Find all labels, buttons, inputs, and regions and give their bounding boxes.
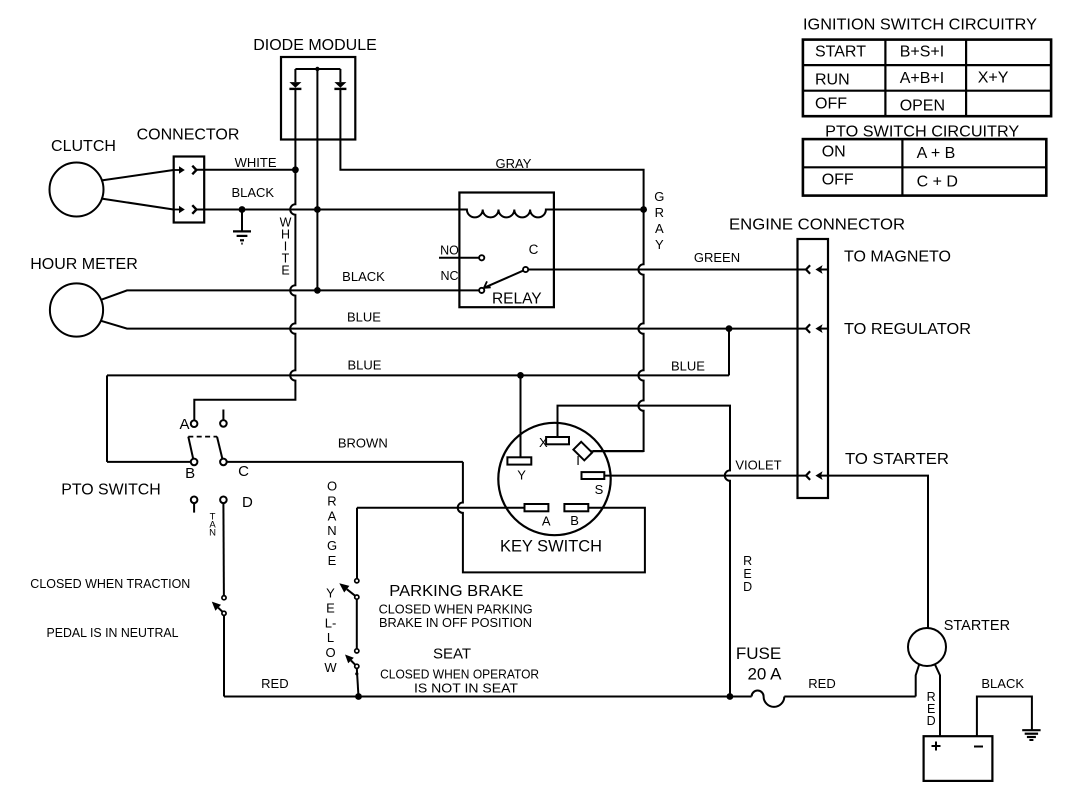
svg-text:G: G [654, 189, 664, 204]
svg-text:ENGINE CONNECTOR: ENGINE CONNECTOR [729, 217, 905, 234]
svg-text:PEDAL IS IN NEUTRAL: PEDAL IS IN NEUTRAL [47, 626, 179, 640]
svg-text:OFF: OFF [822, 171, 854, 188]
svg-text:OFF: OFF [815, 96, 847, 113]
svg-text:CLUTCH: CLUTCH [51, 138, 116, 155]
svg-text:Y: Y [655, 237, 664, 252]
svg-text:DIODE MODULE: DIODE MODULE [253, 37, 377, 54]
svg-text:BROWN: BROWN [338, 436, 388, 451]
svg-text:E: E [281, 263, 289, 277]
svg-text:PTO SWITCH: PTO SWITCH [61, 482, 161, 499]
svg-text:R: R [743, 554, 752, 568]
svg-text:G: G [327, 538, 337, 553]
svg-text:NO: NO [440, 243, 459, 257]
svg-text:PTO SWITCH CIRCUITRY: PTO SWITCH CIRCUITRY [825, 124, 1019, 141]
svg-text:R: R [655, 205, 664, 220]
svg-text:SEAT: SEAT [433, 646, 471, 663]
svg-text:B+S+I: B+S+I [900, 44, 944, 61]
svg-text:BLUE: BLUE [671, 359, 705, 374]
svg-text:BLACK: BLACK [981, 676, 1024, 691]
svg-text:TO REGULATOR: TO REGULATOR [844, 321, 971, 338]
svg-text:BLACK: BLACK [342, 269, 385, 284]
svg-text:BRAKE IN OFF POSITION: BRAKE IN OFF POSITION [379, 616, 532, 630]
svg-text:S: S [595, 482, 604, 497]
svg-text:A+B+I: A+B+I [900, 70, 944, 87]
svg-text:PARKING BRAKE: PARKING BRAKE [389, 583, 523, 600]
svg-text:STARTER: STARTER [944, 618, 1010, 634]
svg-text:KEY SWITCH: KEY SWITCH [500, 537, 602, 556]
svg-text:L-: L- [325, 615, 337, 630]
svg-text:FUSE: FUSE [736, 644, 781, 663]
svg-text:IGNITION SWITCH CIRCUITRY: IGNITION SWITCH CIRCUITRY [803, 17, 1037, 34]
svg-text:BLUE: BLUE [347, 310, 381, 325]
svg-text:O: O [325, 645, 335, 660]
svg-text:D: D [242, 494, 253, 511]
svg-text:O: O [327, 479, 337, 494]
svg-text:R: R [327, 493, 336, 508]
svg-text:A: A [179, 416, 189, 433]
svg-text:CLOSED WHEN OPERATOR: CLOSED WHEN OPERATOR [380, 668, 539, 682]
svg-text:E: E [328, 553, 337, 568]
svg-text:C + D: C + D [917, 174, 958, 191]
svg-text:E: E [743, 567, 751, 581]
svg-text:WHITE: WHITE [235, 155, 277, 170]
svg-text:X: X [539, 435, 548, 450]
svg-text:B: B [185, 465, 195, 482]
svg-text:N: N [327, 523, 336, 538]
svg-text:C: C [238, 463, 249, 480]
svg-text:RELAY: RELAY [492, 290, 542, 307]
svg-text:RUN: RUN [815, 72, 850, 89]
svg-text:A: A [542, 514, 551, 529]
svg-text:TO STARTER: TO STARTER [845, 451, 949, 468]
svg-text:W: W [324, 660, 337, 675]
svg-text:VIOLET: VIOLET [735, 457, 781, 472]
svg-text:START: START [815, 44, 866, 61]
svg-text:L: L [327, 630, 334, 645]
svg-text:D: D [743, 580, 752, 594]
svg-text:20 A: 20 A [747, 664, 782, 683]
svg-text:OPEN: OPEN [900, 98, 945, 115]
svg-text:RED: RED [808, 676, 835, 691]
svg-text:GRAY: GRAY [496, 156, 532, 171]
svg-text:CLOSED WHEN TRACTION: CLOSED WHEN TRACTION [30, 577, 190, 591]
svg-text:IS NOT IN SEAT: IS NOT IN SEAT [414, 681, 518, 695]
svg-text:ON: ON [822, 143, 846, 160]
svg-text:A: A [328, 508, 337, 523]
svg-text:RED: RED [261, 676, 288, 691]
svg-text:CONNECTOR: CONNECTOR [137, 127, 240, 144]
svg-text:X+Y: X+Y [978, 70, 1009, 87]
svg-text:Y: Y [326, 586, 335, 601]
svg-text:E: E [326, 600, 335, 615]
svg-text:A + B: A + B [917, 145, 956, 162]
svg-text:GREEN: GREEN [694, 250, 740, 265]
svg-text:TO MAGNETO: TO MAGNETO [844, 249, 951, 266]
svg-text:BLACK: BLACK [231, 185, 274, 200]
svg-text:B: B [570, 513, 579, 528]
svg-text:C: C [529, 242, 539, 257]
svg-text:N: N [209, 527, 216, 538]
svg-text:HOUR METER: HOUR METER [30, 256, 138, 273]
svg-text:CLOSED WHEN PARKING: CLOSED WHEN PARKING [379, 602, 533, 616]
svg-text:D: D [927, 714, 936, 728]
svg-text:NC: NC [440, 269, 458, 283]
svg-text:BLUE: BLUE [348, 358, 382, 373]
svg-text:A: A [655, 221, 664, 236]
svg-text:Y: Y [517, 468, 526, 483]
svg-text:I: I [576, 453, 580, 468]
